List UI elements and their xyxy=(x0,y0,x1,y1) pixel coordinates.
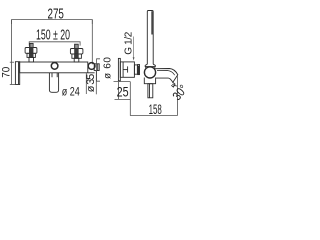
dim 275 dimension line xyxy=(12,20,93,24)
end knob circle (front) xyxy=(88,63,95,70)
handle boss circle (front) xyxy=(51,63,58,70)
svg-text:ø 24: ø 24 xyxy=(62,85,80,99)
dim ø35 left extension line xyxy=(85,73,87,94)
wall union right: pipe stub xyxy=(75,44,79,48)
svg-text:158: 158 xyxy=(149,101,162,117)
30° angle arc xyxy=(172,84,177,86)
lever handle cylinder xyxy=(49,73,58,92)
holder cone xyxy=(145,64,155,68)
svg-text:275: 275 xyxy=(48,7,64,23)
svg-text:150 ± 20: 150 ± 20 xyxy=(36,27,70,43)
dim 275 left extension line xyxy=(11,20,13,85)
dim 25 shelf line xyxy=(114,81,131,83)
hose nipple stub xyxy=(148,84,153,98)
dim ø60 dimension bracket xyxy=(97,59,100,81)
wall union left: escutcheon xyxy=(25,48,37,54)
dim 25 dimension line xyxy=(115,98,131,100)
cartridge detail xyxy=(123,66,128,72)
svg-text:ø 35: ø 35 xyxy=(85,74,97,93)
dim 25 left extension xyxy=(118,82,120,100)
wall union right: hex nut xyxy=(72,54,82,58)
svg-text:ø 60: ø 60 xyxy=(102,57,113,79)
wall union left: pipe stub xyxy=(30,43,34,47)
valve body block (side view) xyxy=(120,62,134,77)
dim ø35 right extension line xyxy=(95,71,97,95)
dim 70 dimension line xyxy=(10,62,16,84)
wall union right: escutcheon xyxy=(70,49,83,55)
neck ring (dark) xyxy=(137,65,140,75)
dim 158 left riser xyxy=(129,82,131,116)
dim G 1/2 leader line xyxy=(133,37,135,61)
mixer bar body (front view) xyxy=(20,62,95,73)
wall escutcheon (side view) xyxy=(118,58,120,80)
spout xyxy=(155,69,178,83)
spout aerator tip xyxy=(171,82,175,87)
svg-text:25: 25 xyxy=(117,83,129,99)
wall union right: collar xyxy=(74,58,79,62)
wall union left: hex nut xyxy=(27,53,35,57)
dim 150±20 dimension line xyxy=(29,42,80,46)
wall union left: collar xyxy=(29,57,34,62)
dim 158 right riser / 30° reference line xyxy=(176,76,178,116)
dim 275 right extension line xyxy=(91,20,93,65)
dim 158 dimension line xyxy=(130,115,177,117)
ball body (side view) xyxy=(144,67,155,78)
svg-text:70: 70 xyxy=(1,67,13,78)
diverter neck under ball xyxy=(144,78,155,84)
hand shower pipe xyxy=(147,11,153,65)
neck connector xyxy=(134,65,137,74)
hand shower holder (left end cap) xyxy=(15,62,19,85)
end knob stem xyxy=(94,64,99,71)
svg-text:G 1/2: G 1/2 xyxy=(124,31,135,54)
